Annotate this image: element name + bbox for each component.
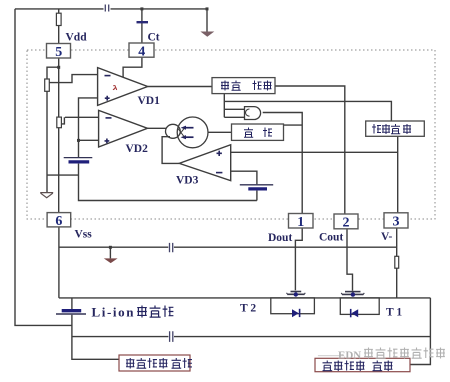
svg-text:VD3: VD3 [176,175,199,187]
svg-text:Li-ion: Li-ion [92,305,136,320]
svg-text:T 2: T 2 [240,303,256,315]
svg-text:5: 5 [55,45,62,60]
svg-text:T 1: T 1 [386,307,402,319]
svg-text:Vss: Vss [75,229,93,241]
svg-text:3: 3 [393,215,400,230]
svg-text:Ct: Ct [148,32,160,44]
svg-text:Cout: Cout [319,232,343,244]
svg-text:VD2: VD2 [126,143,149,155]
svg-text:V-: V- [381,231,392,243]
svg-text:4: 4 [138,44,145,59]
svg-text:2: 2 [343,216,350,231]
svg-text:1: 1 [297,215,304,230]
svg-text:VD1: VD1 [138,95,161,107]
svg-text:Vdd: Vdd [66,32,88,44]
svg-text:Dout: Dout [268,232,292,244]
svg-text:EDN: EDN [338,350,361,362]
svg-text:6: 6 [55,214,62,229]
